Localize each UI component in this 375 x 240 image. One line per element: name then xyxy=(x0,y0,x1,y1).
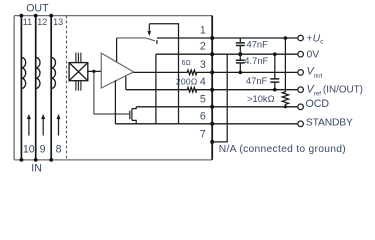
svg-text:10: 10 xyxy=(23,143,35,155)
capacitor C2 4.7nF xyxy=(236,54,245,72)
wire W2 (pin 12/9) xyxy=(35,16,37,160)
rail junction dots rows 1-7 xyxy=(210,36,214,144)
wire W3 (pin 13/8) xyxy=(50,16,52,160)
svg-text:11: 11 xyxy=(23,17,32,27)
wire X-box output to op-amp input xyxy=(88,70,102,72)
wire W1 (pin 11/10) xyxy=(20,16,22,160)
MOSFET Q1 xyxy=(130,107,136,124)
svg-text:12: 12 xyxy=(37,17,47,27)
terminal circle Vout xyxy=(298,70,304,76)
current arrow 3 xyxy=(57,114,61,136)
coil L3 on W3 xyxy=(51,57,55,88)
svg-text:8: 8 xyxy=(56,143,62,155)
wire feedback horizontal to switch xyxy=(117,37,146,39)
current arrow 2 xyxy=(41,114,45,136)
terminal circle 0V xyxy=(298,51,304,57)
feedback wire from op-amp top edge up xyxy=(116,38,118,62)
svg-text:47nF: 47nF xyxy=(246,75,268,86)
row6 wire (STANDBY) xyxy=(115,123,297,125)
capacitor C3 47nF xyxy=(270,54,279,89)
svg-text:47nF: 47nF xyxy=(247,39,269,50)
dashed separator line xyxy=(66,16,68,160)
node junction dot on input wire xyxy=(92,70,95,73)
svg-text:4: 4 xyxy=(200,76,206,88)
wire junction down to MOSFET gate xyxy=(94,71,129,114)
svg-text:6Ω: 6Ω xyxy=(182,60,191,67)
terminal circle OCD xyxy=(298,104,304,110)
row5 wire (OCD) from MOSFET drain xyxy=(136,106,298,108)
row1 wire (+Us) from switch to terminal xyxy=(157,37,298,39)
svg-text:OUT: OUT xyxy=(26,3,49,15)
svg-text:0V: 0V xyxy=(307,49,320,60)
N/A ground jog wire (pin7 to 0V) xyxy=(212,54,227,142)
svg-text:2: 2 xyxy=(200,41,206,53)
switch blade xyxy=(145,38,155,41)
capacitor C1 47nF xyxy=(236,38,245,54)
resistor R3 >10k ohm vertical zigzag xyxy=(282,38,288,107)
svg-text:3: 3 xyxy=(200,59,206,71)
row3 wire (Vout) from op-amp apex, resistor R1 6ohm zigzag inline xyxy=(134,70,298,75)
svg-text:200Ω: 200Ω xyxy=(176,77,198,87)
row4 wire (Vref) with resistor R2 200ohm zigzag inline xyxy=(126,87,298,92)
coil L1 on W1 xyxy=(21,57,25,88)
core ticks above X-box xyxy=(76,53,81,63)
svg-text:7: 7 xyxy=(200,128,206,140)
svg-text:5: 5 xyxy=(200,93,206,105)
fluxgate X-box xyxy=(69,63,88,81)
svg-text:OCD: OCD xyxy=(306,98,330,110)
terminal circle +Us xyxy=(298,35,304,41)
svg-text:1: 1 xyxy=(200,25,206,37)
svg-text:4.7nF: 4.7nF xyxy=(244,55,268,66)
switch contact tick xyxy=(156,40,158,44)
svg-text:IN: IN xyxy=(31,163,42,175)
svg-text:>10kΩ: >10kΩ xyxy=(247,93,275,104)
wire Vref feedback drop from op-amp lower edge xyxy=(125,76,127,89)
core ticks below X-box xyxy=(76,81,81,91)
svg-text:STANDBY: STANDBY xyxy=(306,118,353,129)
terminal circle Vref xyxy=(298,87,304,93)
wire op-amp lower edge drop to row6 xyxy=(114,80,116,124)
op-amp triangle U1 xyxy=(101,53,133,88)
coil L2 on W2 xyxy=(36,57,40,88)
terminal circle STANDBY xyxy=(298,121,304,127)
switch control arrow xyxy=(147,24,151,36)
row2 wire (0V) xyxy=(156,53,298,55)
svg-text:13: 13 xyxy=(53,17,63,27)
svg-text:6: 6 xyxy=(200,110,206,122)
junction dots on top border xyxy=(20,14,54,18)
IC outer box (top, left, bottom borders) xyxy=(14,16,212,160)
current arrow 1 xyxy=(27,114,31,136)
pin rail (IC right edge) xyxy=(211,16,213,160)
svg-text:N/A (connected to ground): N/A (connected to ground) xyxy=(219,144,346,155)
svg-text:9: 9 xyxy=(40,143,46,155)
wire 0V internal drop (row2 to row6) xyxy=(155,54,157,124)
control loop wire to resistor column xyxy=(149,24,178,124)
junction dots on bottom border xyxy=(20,158,54,162)
